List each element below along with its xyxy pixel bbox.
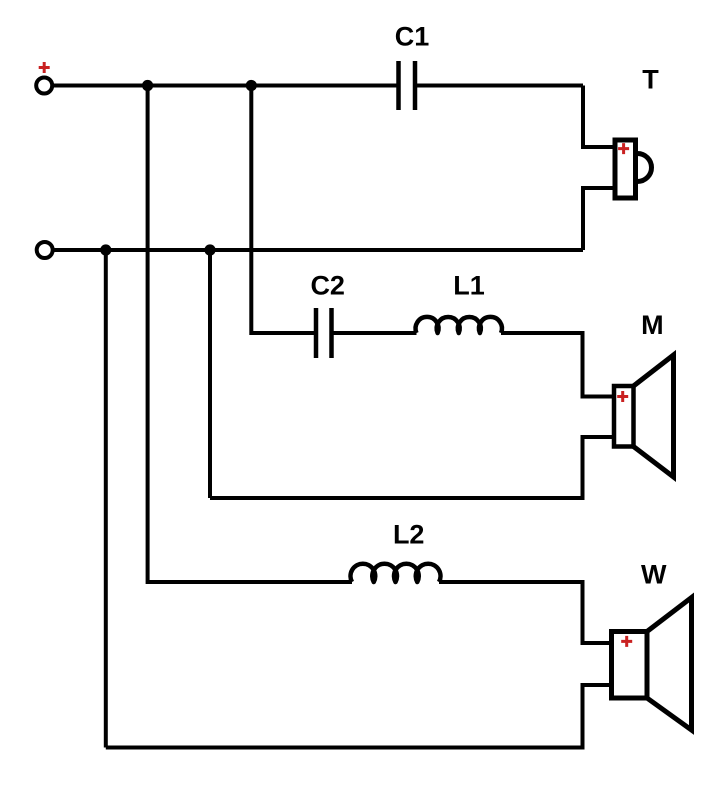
svg-text:L1: L1 xyxy=(453,270,485,300)
svg-text:T: T xyxy=(642,64,659,94)
wire woofer return xyxy=(106,685,612,748)
tweeter T dome xyxy=(638,154,652,182)
midrange M body xyxy=(614,386,634,447)
wire L1 to midrange xyxy=(501,333,614,397)
terminal negative input xyxy=(37,242,53,258)
wire top positive rail xyxy=(54,84,583,88)
wire L2 to woofer xyxy=(439,582,612,643)
wire midrange feed vertical xyxy=(251,86,316,334)
polarity + mark midrange xyxy=(617,391,628,402)
svg-text:C1: C1 xyxy=(395,22,430,52)
wire C2 to L1 xyxy=(332,331,417,335)
wire midrange return xyxy=(210,437,614,498)
node junction top-left xyxy=(142,80,153,91)
wire midrange return vertical xyxy=(208,250,212,498)
svg-text:M: M xyxy=(641,310,664,340)
svg-text:L2: L2 xyxy=(393,519,425,549)
tweeter T body xyxy=(615,140,636,198)
capacitor C1 xyxy=(399,61,416,110)
wire bottom negative rail xyxy=(54,248,583,252)
polarity + mark input xyxy=(39,62,50,73)
node junction bottom-left xyxy=(100,244,111,255)
capacitor C2 xyxy=(316,308,332,358)
node junction bottom-right xyxy=(204,244,215,255)
woofer W cone xyxy=(647,598,692,731)
polarity + mark woofer xyxy=(621,636,632,647)
wire tweeter upper lead xyxy=(583,86,615,148)
terminal positive input xyxy=(36,78,52,94)
svg-text:W: W xyxy=(641,560,667,590)
polarity + mark tweeter xyxy=(618,143,629,154)
inductor L1 xyxy=(416,317,502,333)
wire woofer return vertical xyxy=(104,250,108,748)
midrange M cone xyxy=(634,355,674,477)
inductor L2 xyxy=(350,564,440,582)
wire woofer feed vertical xyxy=(148,86,352,583)
wire tweeter lower lead xyxy=(583,188,615,250)
svg-text:C2: C2 xyxy=(310,270,345,300)
node junction top-right xyxy=(246,80,257,91)
woofer W body xyxy=(612,632,648,699)
